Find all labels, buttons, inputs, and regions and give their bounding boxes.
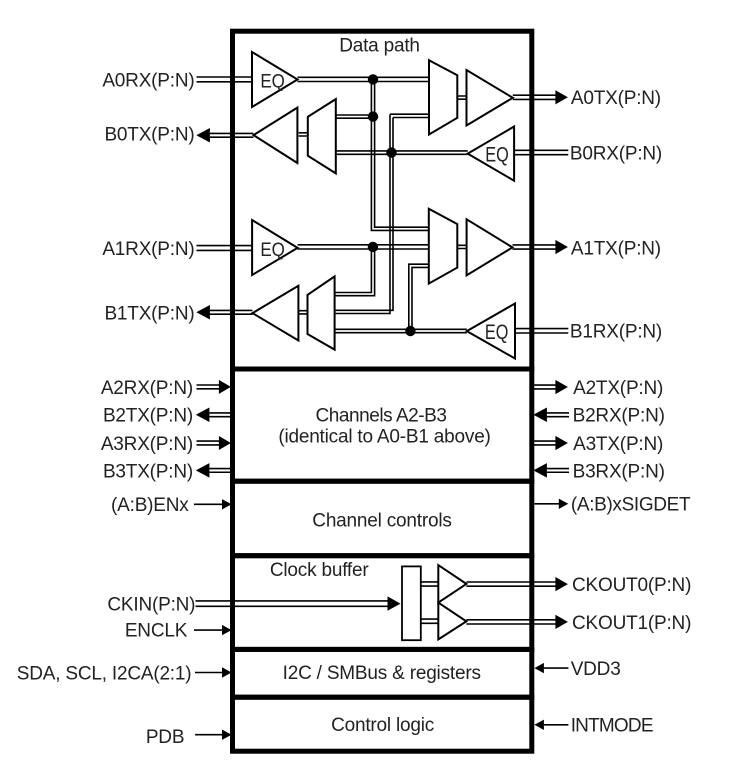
svg-text:B3RX(P:N): B3RX(P:N)	[573, 461, 665, 482]
svg-text:Clock buffer: Clock buffer	[270, 560, 370, 581]
svg-text:INTMODE: INTMODE	[571, 716, 653, 737]
buffer B0TX driver	[254, 108, 298, 163]
buffer B1TX driver	[253, 286, 299, 341]
wire A0 branch to B0 mux	[336, 115, 373, 118]
wire A2TX stub	[532, 385, 556, 389]
svg-text:CKIN(P:N): CKIN(P:N)	[107, 594, 195, 615]
svg-text:B1TX(P:N): B1TX(P:N)	[104, 304, 194, 325]
wire B1 mux to buffer	[298, 311, 307, 314]
svg-text:A0TX(P:N): A0TX(P:N)	[571, 88, 661, 109]
mux A1TX (3:1 select)	[429, 209, 458, 284]
svg-text:B1RX(P:N): B1RX(P:N)	[570, 321, 662, 342]
node: A0 junction	[368, 74, 378, 84]
wire A2RX stub	[197, 385, 220, 389]
block: Control logic	[233, 697, 532, 751]
node: B1 junction	[405, 326, 415, 336]
arrow A0TX	[555, 90, 568, 104]
buffer CKOUT0 driver	[438, 565, 466, 603]
svg-text:EQ: EQ	[485, 143, 509, 166]
svg-text:EQ: EQ	[260, 239, 285, 261]
wire A0TX output	[513, 95, 556, 99]
wire ENx stub	[194, 503, 223, 505]
wire CKOUT0 output	[466, 582, 556, 586]
wire INTMODE stub	[544, 724, 569, 726]
EQ B1 (equalizer)	[467, 304, 515, 359]
wire B1RX lead-in	[515, 329, 568, 333]
arrow B2TX	[196, 408, 210, 423]
block: Clock buffer	[233, 556, 532, 650]
arrow CKIN into mux	[388, 596, 401, 610]
block: Channel controls	[233, 481, 532, 556]
svg-text:CKOUT1(P:N): CKOUT1(P:N)	[572, 613, 691, 634]
svg-text:B2RX(P:N): B2RX(P:N)	[573, 406, 665, 427]
wire B2RX stub	[547, 413, 569, 417]
arrow INTMODE	[534, 720, 544, 730]
arrow SDA/SCL	[222, 667, 232, 677]
buffer CKOUT1 driver	[438, 603, 466, 640]
svg-text:A3TX(P:N): A3TX(P:N)	[573, 434, 663, 455]
wire A0 EQ output to mux	[298, 77, 430, 81]
arrow A3RX	[219, 436, 231, 450]
mux A0TX (2:1 select)	[429, 60, 457, 134]
wire B0 EQ output to mux	[336, 151, 468, 154]
arrow A3TX	[555, 436, 568, 450]
svg-text:(A:B)xSIGDET: (A:B)xSIGDET	[571, 495, 691, 516]
arrow A2TX	[555, 380, 568, 394]
node: A0-to-B0mux junction	[368, 111, 378, 121]
svg-text:A3RX(P:N): A3RX(P:N)	[101, 434, 193, 455]
arrow A2RX	[219, 380, 231, 394]
arrow ENx	[222, 499, 232, 509]
wire ENCLK stub	[194, 629, 223, 631]
svg-text:B0RX(P:N): B0RX(P:N)	[570, 143, 662, 164]
wire A1 EQ output to mux	[298, 245, 429, 249]
arrow B1TX	[196, 305, 210, 320]
block: I2C / SMBus & registers	[233, 649, 532, 697]
wire PDB stub	[195, 734, 223, 736]
wire CKOUT1 output	[466, 620, 556, 624]
wire B1TX output	[210, 310, 253, 314]
wire SDA/SCL stub	[195, 672, 223, 674]
wire V3: A1 net vertical crossover	[335, 247, 375, 296]
arrow PDB	[222, 730, 232, 740]
wire mux to CKOUT0 buffer	[421, 582, 439, 586]
arrow ENCLK	[222, 625, 232, 635]
svg-text:A1RX(P:N): A1RX(P:N)	[102, 239, 194, 260]
arrow B2RX	[533, 408, 547, 423]
node: A1 junction	[368, 242, 378, 252]
svg-text:B0TX(P:N): B0TX(P:N)	[104, 124, 194, 145]
arrow SIGDET	[559, 499, 569, 509]
EQ B0 (equalizer)	[468, 127, 514, 181]
wire A3RX stub	[197, 441, 220, 445]
block: Channels A2-B3	[233, 369, 532, 481]
block: Data path	[233, 31, 532, 369]
svg-text:(A:B)ENx: (A:B)ENx	[111, 495, 189, 516]
svg-text:CKOUT0(P:N): CKOUT0(P:N)	[572, 575, 691, 596]
svg-text:B3TX(P:N): B3TX(P:N)	[103, 461, 193, 482]
svg-text:Channels A2-B3: Channels A2-B3	[315, 405, 446, 426]
wire B2TX stub	[209, 413, 235, 417]
wire B1 EQ output to mux	[335, 329, 467, 332]
arrow A1TX	[555, 240, 568, 254]
EQ A1 (equalizer)	[252, 220, 298, 275]
arrow B0TX	[196, 128, 210, 143]
wire B0 mux to buffer	[299, 133, 308, 136]
wire A0 mux to buffer	[457, 96, 466, 99]
arrow CKOUT0	[555, 577, 568, 591]
svg-text:VDD3: VDD3	[571, 659, 621, 680]
arrow B3TX	[196, 463, 210, 478]
arrow B3RX	[533, 463, 547, 478]
svg-text:B2TX(P:N): B2TX(P:N)	[103, 406, 193, 427]
svg-text:A2RX(P:N): A2RX(P:N)	[101, 378, 193, 399]
wire A1TX output	[513, 245, 556, 249]
mux B1TX (3:1 select)	[308, 276, 335, 349]
clock mux U1 (input select)	[402, 566, 421, 640]
svg-text:Data path: Data path	[339, 36, 420, 57]
wire V2: B0 net vertical crossover	[335, 114, 429, 313]
svg-text:ENCLK: ENCLK	[125, 621, 188, 642]
svg-text:EQ: EQ	[485, 321, 509, 344]
wire B0RX lead-in	[514, 150, 568, 154]
wire B3RX stub	[547, 469, 569, 473]
svg-text:I2C / SMBus & registers: I2C / SMBus & registers	[283, 663, 481, 684]
wire A0RX lead-in	[197, 77, 253, 82]
wire VDD3 stub	[544, 667, 569, 669]
mux B0TX (2:1 select)	[308, 99, 336, 173]
EQ A0 (equalizer)	[252, 52, 298, 107]
svg-text:Control logic: Control logic	[331, 715, 434, 736]
wire V1: A0 net vertical crossover	[371, 79, 429, 230]
wire A1RX lead-in	[197, 246, 253, 251]
wire SIGDET stub	[534, 503, 559, 505]
svg-text:(identical to A0-B1 above): (identical to A0-B1 above)	[278, 426, 490, 447]
arrow VDD3	[534, 663, 544, 673]
wire A1 mux to buffer	[457, 245, 466, 248]
buffer A1TX driver	[467, 219, 513, 275]
svg-text:PDB: PDB	[146, 727, 184, 748]
wire CKIN	[196, 601, 388, 606]
wire V4: B1 net vertical crossover to A1 mux	[409, 264, 429, 331]
svg-text:A1TX(P:N): A1TX(P:N)	[571, 238, 661, 259]
arrow CKOUT1	[555, 615, 568, 629]
svg-text:SDA, SCL, I2CA(2:1): SDA, SCL, I2CA(2:1)	[17, 663, 192, 684]
svg-text:A0RX(P:N): A0RX(P:N)	[102, 70, 194, 91]
node: B0 junction	[386, 147, 396, 157]
svg-text:EQ: EQ	[260, 71, 285, 93]
svg-text:A2TX(P:N): A2TX(P:N)	[573, 378, 663, 399]
wire mux to CKOUT1 buffer	[421, 619, 439, 623]
wire B3TX stub	[209, 469, 235, 473]
buffer A0TX driver	[467, 70, 513, 126]
svg-text:Channel controls: Channel controls	[312, 510, 451, 531]
wire A3TX stub	[532, 441, 556, 445]
wire B0TX output	[210, 133, 254, 137]
